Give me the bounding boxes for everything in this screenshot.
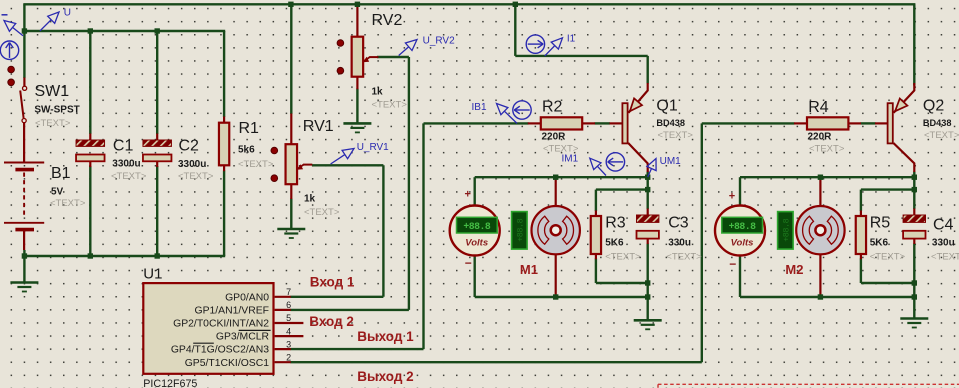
svg-text:+88.8: +88.8 — [729, 221, 757, 232]
svg-text:R3: R3 — [605, 214, 626, 231]
svg-text:BD438: BD438 — [656, 118, 685, 128]
svg-text:220R: 220R — [808, 132, 833, 143]
svg-text:BD438: BD438 — [923, 118, 952, 128]
svg-text:I1: I1 — [567, 34, 576, 45]
svg-text:Выход 1: Выход 1 — [357, 329, 414, 344]
svg-text:<TEXT>: <TEXT> — [178, 171, 214, 182]
svg-text:2: 2 — [286, 352, 291, 362]
svg-text:<TEXT>: <TEXT> — [931, 252, 959, 263]
svg-text:U_RV2: U_RV2 — [423, 35, 455, 46]
svg-text:Volts: Volts — [731, 238, 754, 249]
svg-text:<TEXT>: <TEXT> — [50, 198, 86, 209]
svg-text:C1: C1 — [113, 138, 134, 155]
svg-text:330u: 330u — [932, 238, 955, 249]
svg-text:C4: C4 — [933, 217, 954, 234]
svg-text:1k: 1k — [304, 194, 316, 205]
svg-text:<TEXT>: <TEXT> — [666, 252, 702, 263]
svg-text:GP4/T1G/OSC2/AN3: GP4/T1G/OSC2/AN3 — [171, 345, 269, 356]
svg-text:Volts: Volts — [465, 238, 488, 249]
svg-text:GP3/MCLR: GP3/MCLR — [216, 332, 270, 343]
svg-text:U_RV1: U_RV1 — [357, 142, 389, 153]
svg-text:GP5/T1CKI/OSC1: GP5/T1CKI/OSC1 — [185, 358, 270, 369]
svg-text:IB1: IB1 — [472, 102, 487, 113]
svg-text:Вход 2: Вход 2 — [309, 314, 354, 329]
svg-text:−: − — [729, 257, 736, 271]
svg-text:SW-SPST: SW-SPST — [34, 104, 79, 115]
svg-text:IM1: IM1 — [562, 154, 579, 165]
svg-text:GP1/AN1/VREF: GP1/AN1/VREF — [195, 306, 270, 317]
svg-text:6: 6 — [286, 300, 291, 310]
svg-text:R4: R4 — [808, 99, 829, 116]
svg-text:+88.8: +88.8 — [463, 221, 491, 232]
svg-text:220R: 220R — [542, 132, 567, 143]
svg-text:M2: M2 — [785, 262, 803, 277]
svg-text:RV2: RV2 — [372, 12, 403, 29]
svg-text:5k6: 5k6 — [238, 145, 255, 156]
svg-text:U1: U1 — [143, 265, 162, 282]
svg-text:<TEXT>: <TEXT> — [372, 100, 408, 111]
svg-text:−: − — [465, 256, 472, 270]
svg-text:GP2/T0CKI/INT/AN2: GP2/T0CKI/INT/AN2 — [173, 319, 269, 330]
svg-text:<TEXT>: <TEXT> — [605, 252, 641, 263]
svg-text:3300u: 3300u — [112, 159, 140, 170]
svg-text:3300u: 3300u — [178, 159, 206, 170]
svg-text:7: 7 — [286, 287, 291, 297]
svg-text:Q1: Q1 — [656, 98, 677, 115]
svg-text:5K6: 5K6 — [605, 238, 624, 249]
svg-text:Выход 2: Выход 2 — [357, 369, 413, 384]
svg-text:B1: B1 — [51, 165, 71, 182]
svg-text:GP0/AN0: GP0/AN0 — [225, 292, 269, 303]
svg-text:U: U — [64, 8, 71, 19]
svg-text:PIC12F675: PIC12F675 — [143, 378, 197, 388]
svg-text:<TEXT>: <TEXT> — [111, 171, 147, 182]
svg-text:<TEXT>: <TEXT> — [238, 159, 274, 170]
svg-text:+88.8: +88.8 — [781, 218, 791, 241]
svg-text:C2: C2 — [179, 138, 200, 155]
svg-text:<TEXT>: <TEXT> — [304, 207, 340, 218]
svg-text:<TEXT>: <TEXT> — [809, 143, 845, 154]
svg-text:1k: 1k — [372, 87, 384, 98]
svg-text:<TEXT>: <TEXT> — [35, 118, 71, 129]
svg-text:5K6: 5K6 — [870, 238, 889, 249]
svg-text:5: 5 — [286, 313, 291, 323]
svg-text:5V: 5V — [51, 187, 64, 198]
svg-text:UM1: UM1 — [660, 156, 682, 167]
svg-text:RV1: RV1 — [303, 118, 334, 135]
svg-text:Q2: Q2 — [923, 98, 944, 115]
svg-text:4: 4 — [286, 326, 291, 336]
svg-text:SW1: SW1 — [35, 83, 70, 100]
svg-text:3: 3 — [286, 339, 291, 349]
svg-text:<TEXT>: <TEXT> — [658, 130, 694, 141]
svg-text:<TEXT>: <TEXT> — [543, 143, 579, 154]
svg-text:R5: R5 — [870, 214, 891, 231]
svg-text:Вход 1: Вход 1 — [310, 275, 355, 290]
svg-text:+88.8: +88.8 — [515, 218, 525, 241]
svg-text:M1: M1 — [520, 262, 538, 277]
svg-text:<TEXT>: <TEXT> — [924, 130, 959, 141]
svg-text:R2: R2 — [542, 99, 563, 116]
svg-text:R1: R1 — [239, 120, 260, 137]
svg-text:330u: 330u — [668, 238, 691, 249]
svg-text:+: + — [729, 191, 735, 203]
svg-text:<TEXT>: <TEXT> — [870, 252, 906, 263]
svg-text:C3: C3 — [668, 214, 689, 231]
svg-text:+: + — [465, 189, 471, 201]
